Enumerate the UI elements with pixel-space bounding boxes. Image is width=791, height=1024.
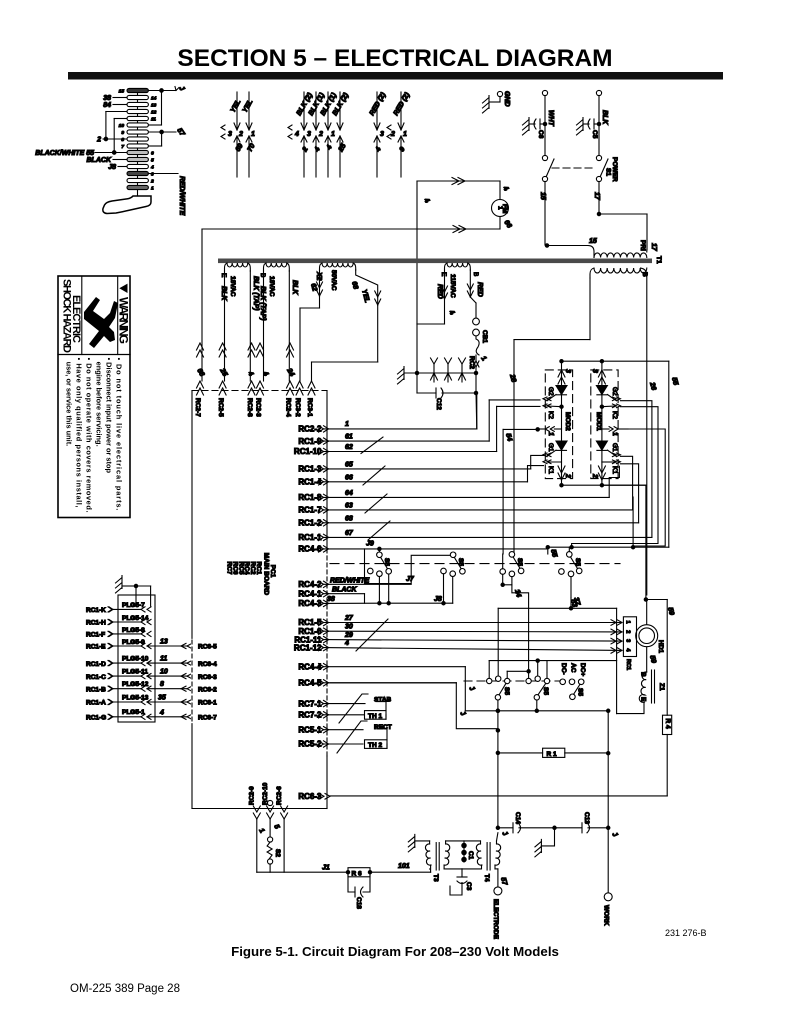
svg-text:RC4-5: RC4-5 [298, 679, 322, 688]
transformer T1 primary winding PRI [545, 238, 662, 264]
svg-text:RC1-2: RC1-2 [298, 519, 322, 528]
svg-text:RC7-1: RC7-1 [298, 699, 322, 708]
transformer T1 18VAC winding 2 [259, 263, 298, 381]
switch S5 contact 1a [368, 547, 392, 605]
PC1 MAIN BOARD label [226, 553, 277, 596]
row RC1-8 wire 64 [298, 466, 619, 502]
svg-text:WORK: WORK [603, 905, 610, 926]
svg-text:29: 29 [344, 632, 353, 639]
svg-text:2: 2 [150, 178, 154, 184]
bottom connector pins RC2-9 RC2-10 RC2-6 [249, 782, 288, 819]
svg-text:T4: T4 [483, 874, 490, 882]
RC6 pins right of PLG5 [181, 643, 217, 721]
svg-text:RC5-2: RC5-2 [298, 740, 322, 749]
svg-text:R 6: R 6 [352, 870, 363, 877]
svg-text:RC1-E: RC1-E [86, 644, 106, 651]
svg-text:1: 1 [251, 131, 255, 138]
wire pin9 to node 57 [148, 130, 176, 146]
svg-text:DC-: DC- [560, 663, 567, 675]
svg-text:1: 1 [547, 432, 554, 436]
svg-text:WARNING: WARNING [117, 297, 131, 344]
switch J9 wiring [365, 541, 454, 584]
connector pin numbers [119, 88, 157, 191]
thermostat TH2 [337, 721, 392, 753]
svg-text:RC4-4: RC4-4 [298, 662, 322, 671]
svg-text:E: E [640, 697, 647, 702]
svg-text:J1: J1 [322, 865, 330, 872]
current sensor HD1 [636, 600, 675, 673]
row RC7-1 [298, 699, 365, 708]
switch S1 pole 2 POWER [552, 155, 647, 250]
svg-text:1: 1 [497, 206, 504, 210]
svg-text:4: 4 [159, 709, 164, 716]
transformer T1 core bar [218, 259, 652, 264]
svg-text:RC4-6: RC4-6 [298, 545, 322, 554]
PLG5 pin rows [113, 602, 187, 719]
row RC1-1 wire 67 [298, 401, 652, 542]
svg-text:RC1-B: RC1-B [86, 686, 106, 693]
svg-text:RC5-1: RC5-1 [298, 725, 322, 734]
svg-text:13: 13 [151, 102, 157, 108]
svg-text:1: 1 [151, 185, 154, 191]
svg-text:231 276-B: 231 276-B [665, 928, 707, 938]
row RC1-9 wire 61 [298, 400, 540, 446]
row RC1-7 wire 63 [298, 456, 632, 514]
work terminal [603, 828, 613, 926]
svg-text:S5: S5 [516, 558, 523, 566]
warning label warning triangle [119, 284, 127, 293]
connector RC1 board header [623, 617, 636, 670]
svg-text:B: B [472, 272, 479, 276]
PC1 board bottom edge [192, 808, 327, 810]
PC1 board dashed edge at rows [326, 391, 328, 549]
capacitor C13 [555, 812, 619, 839]
svg-text:S5: S5 [503, 687, 510, 695]
svg-text:R 4: R 4 [664, 719, 671, 730]
svg-text:12: 12 [151, 109, 157, 115]
svg-text:84: 84 [103, 102, 111, 109]
svg-text:S5: S5 [383, 558, 390, 566]
switch S5 contact 1d [559, 547, 582, 608]
svg-text:RC6-3: RC6-3 [298, 792, 322, 801]
svg-text:18VAC: 18VAC [268, 276, 275, 297]
wire pair group 3 (RED leads) [369, 91, 412, 177]
svg-text:R 1: R 1 [547, 751, 558, 758]
svg-text:MAIN BOARD: MAIN BOARD [263, 553, 270, 596]
svg-text:C13: C13 [583, 812, 590, 824]
wire pin3 RED/WHITE [148, 173, 178, 175]
warning label bullet text [65, 358, 124, 513]
wire 53 node [498, 599, 616, 714]
svg-text:J9: J9 [366, 541, 374, 548]
capacitor C1 [446, 841, 481, 862]
switch S2 on RC2-10 [267, 819, 281, 872]
wire MOD1 pin1 down [628, 429, 665, 549]
svg-text:RECT: RECT [374, 724, 392, 731]
svg-text:RC7-2: RC7-2 [298, 711, 322, 720]
svg-text:S5: S5 [574, 558, 581, 566]
capacitor C3 [444, 869, 480, 895]
svg-text:PLG5-12: PLG5-12 [122, 681, 149, 688]
row RC1-11 wire 29 [294, 632, 622, 644]
switch S5 contact 1c [500, 552, 529, 672]
capacitor C12 [417, 373, 477, 429]
svg-text:PLG5-10: PLG5-10 [122, 656, 149, 663]
SCR module MOD1 internals [591, 361, 628, 485]
ground at C14/C13 [535, 828, 555, 857]
svg-text:RC1-8: RC1-8 [298, 493, 322, 502]
svg-text:▪ Do not operate with covers r: ▪ Do not operate with covers removed. [85, 358, 94, 513]
svg-text:RC1-3: RC1-3 [298, 465, 322, 474]
node BLACK/WHITE 55 wire [35, 119, 127, 158]
row RC4-4 [298, 662, 476, 710]
svg-text:38: 38 [103, 95, 111, 102]
MOD bottom bus [560, 484, 646, 487]
svg-text:2: 2 [96, 137, 101, 144]
svg-text:T3: T3 [432, 874, 439, 882]
node J8 wire [108, 164, 127, 171]
svg-text:RC6-7: RC6-7 [198, 715, 217, 722]
svg-text:K2: K2 [611, 411, 618, 419]
svg-text:RC1-5: RC1-5 [298, 618, 322, 627]
svg-text:10: 10 [119, 123, 125, 129]
transformer T1 secondary winding B [508, 268, 657, 595]
svg-text:3: 3 [307, 131, 311, 138]
svg-text:27: 27 [344, 615, 354, 622]
svg-text:RED/WHITE: RED/WHITE [330, 577, 370, 584]
svg-text:11: 11 [160, 656, 167, 663]
svg-text:K2: K2 [547, 411, 554, 419]
svg-text:15: 15 [119, 88, 125, 94]
svg-text:RC1-H: RC1-H [86, 620, 106, 627]
row RC5-2 [298, 740, 363, 749]
node 84 wire [103, 102, 127, 109]
SCR D3 top (anode up) [556, 386, 567, 395]
wire 54 MOD2 pin1 to S5 [503, 429, 538, 554]
node 55 junction [546, 546, 558, 559]
svg-text:C18: C18 [355, 897, 362, 909]
svg-text:2: 2 [591, 473, 598, 478]
svg-text:1: 1 [345, 421, 349, 428]
svg-text:RC1: RC1 [625, 659, 631, 670]
bottom rail to R6 [257, 865, 350, 874]
svg-text:17: 17 [650, 243, 657, 252]
svg-text:S5: S5 [542, 687, 549, 695]
svg-text:B: B [640, 672, 647, 677]
circuit breaker CB1 [468, 318, 488, 395]
svg-text:RC1-K: RC1-K [86, 607, 106, 614]
svg-text:38: 38 [327, 596, 335, 603]
svg-text:RC3-1: RC3-1 [306, 398, 313, 417]
svg-text:engine before servicing.: engine before servicing. [95, 358, 104, 447]
RC1 letter pins left [86, 607, 113, 722]
svg-text:BLACK: BLACK [87, 157, 112, 164]
svg-text:1: 1 [331, 131, 335, 138]
svg-text:B: B [259, 273, 266, 277]
svg-text:4: 4 [344, 640, 349, 647]
svg-text:50VAC: 50VAC [330, 270, 337, 291]
svg-text:TH 1: TH 1 [368, 713, 382, 720]
row RC4-2 RED/WHITE [298, 577, 411, 589]
svg-text:RC2-5: RC2-5 [217, 398, 224, 417]
ground GND chassis [483, 91, 511, 113]
cable slash RC1-5..12 [356, 619, 388, 651]
svg-text:3: 3 [151, 171, 154, 177]
svg-text:K1: K1 [547, 466, 554, 474]
svg-text:RC4-1: RC4-1 [298, 589, 322, 598]
svg-text:STAB: STAB [374, 697, 392, 704]
ground and surge arresters row [398, 358, 477, 384]
svg-text:RED/WHITE: RED/WHITE [178, 176, 185, 216]
svg-text:SECTION 5 – ELECTRICAL DIAGRAM: SECTION 5 – ELECTRICAL DIAGRAM [177, 45, 612, 72]
svg-text:BLK (TAP): BLK (TAP) [252, 276, 259, 311]
SCR module MOD2 internals [536, 361, 571, 485]
svg-text:13: 13 [160, 639, 168, 646]
PC1 board left edge [191, 391, 193, 809]
svg-text:X2: X2 [315, 271, 322, 281]
svg-text:BLACK: BLACK [332, 587, 357, 594]
svg-text:4: 4 [150, 164, 154, 170]
inductor Z1 [617, 670, 665, 714]
svg-text:TH 2: TH 2 [368, 742, 382, 749]
svg-text:RC6-3: RC6-3 [198, 674, 217, 681]
svg-text:17: 17 [593, 192, 600, 201]
transformer T1 115VAC winding [417, 263, 483, 373]
svg-text:C5: C5 [591, 130, 598, 139]
svg-text:RC6-2: RC6-2 [198, 686, 217, 693]
capacitor C6 with ground [523, 90, 555, 155]
MOD1 pin 1 [609, 427, 618, 432]
svg-text:GND: GND [503, 91, 510, 107]
capacitor C5 with ground [577, 90, 609, 155]
SCR module MOD1 dashed outline [591, 370, 618, 479]
row RC1-5 wire 27 [298, 615, 622, 627]
svg-text:RC1-D: RC1-D [86, 661, 106, 668]
warning label shock person pictograph [84, 297, 118, 348]
row RC5-1 [298, 725, 363, 734]
svg-text:ELECTRODE: ELECTRODE [492, 899, 499, 940]
SCR D1 top [596, 386, 607, 395]
svg-text:C6: C6 [537, 130, 544, 139]
row RC1-3 wire 65 [298, 455, 543, 473]
svg-text:CB1: CB1 [481, 330, 488, 343]
svg-text:RC1-1: RC1-1 [298, 533, 322, 542]
svg-text:66: 66 [345, 474, 353, 481]
svg-text:62: 62 [345, 444, 353, 451]
selector switch S5 dashed gang line row 1 [330, 563, 620, 565]
cable slash RC1-9/RC1-10 [361, 437, 383, 454]
node wire to R1 [465, 709, 610, 828]
svg-text:J7: J7 [406, 576, 415, 583]
svg-text:3: 3 [625, 639, 631, 642]
svg-text:3: 3 [380, 131, 384, 138]
svg-text:Z1: Z1 [658, 683, 665, 691]
row RC1-4 wire 66 [298, 466, 543, 487]
svg-text:15: 15 [589, 238, 597, 245]
svg-text:RC2: RC2 [468, 356, 475, 369]
svg-text:PRI: PRI [639, 240, 646, 251]
hf transformer T3 [408, 834, 449, 882]
svg-text:8: 8 [121, 137, 124, 143]
svg-text:C12: C12 [435, 398, 442, 410]
transformer T1 18VAC winding 1 [220, 263, 259, 381]
svg-text:G1: G1 [547, 443, 554, 452]
svg-text:RC2-3: RC2-3 [255, 398, 262, 417]
svg-text:RC6-1: RC6-1 [198, 700, 217, 707]
svg-text:5: 5 [151, 157, 154, 163]
svg-text:RC6-5: RC6-5 [198, 644, 217, 651]
row RC4-6 [298, 545, 547, 554]
row RC1-2 wire 68 [298, 464, 638, 528]
row RC2-2 wire 1 [298, 393, 476, 434]
svg-text:S5: S5 [457, 558, 464, 566]
svg-text:RC1-7: RC1-7 [298, 506, 322, 515]
svg-text:RED: RED [476, 282, 483, 297]
svg-text:PLG5-13: PLG5-13 [122, 695, 149, 702]
svg-text:3: 3 [591, 369, 598, 373]
node 38 wire [103, 95, 127, 102]
svg-text:S2: S2 [274, 849, 281, 857]
SCR module MOD2 dashed outline [545, 370, 572, 479]
svg-text:35: 35 [158, 695, 166, 702]
svg-text:AC: AC [570, 663, 577, 673]
svg-text:3: 3 [564, 369, 571, 373]
svg-text:RC3-2: RC3-2 [294, 398, 301, 417]
connector PLG5 block [116, 576, 156, 723]
row RC1-12 wire 4 [294, 640, 622, 653]
svg-text:68: 68 [345, 515, 353, 522]
svg-text:J8: J8 [434, 596, 442, 603]
svg-text:G2: G2 [611, 387, 618, 396]
switch S5 contact 1b [441, 552, 466, 605]
resistor R6 [348, 863, 431, 877]
svg-text:PLG5-1: PLG5-1 [122, 709, 145, 716]
svg-text:RC1-10: RC1-10 [294, 447, 322, 456]
capacitor C18 [348, 872, 370, 909]
svg-text:OM-225 389 Page 28: OM-225 389 Page 28 [70, 983, 180, 995]
svg-text:use, or service this unit.: use, or service this unit. [65, 358, 74, 447]
svg-text:30: 30 [345, 624, 353, 631]
svg-text:WHT: WHT [547, 110, 554, 127]
svg-text:RC1-9: RC1-9 [298, 437, 322, 446]
cable slash RC1-3/RC1-4 [363, 466, 385, 485]
svg-text:E: E [220, 273, 227, 278]
svg-text:1: 1 [625, 621, 631, 624]
row RC1-10 wire 62 [294, 406, 540, 456]
resistor R1 [498, 748, 608, 758]
svg-text:C3: C3 [465, 882, 472, 891]
svg-text:J8: J8 [108, 164, 116, 171]
svg-text:RC4-2: RC4-2 [298, 580, 322, 589]
cable slash RC1-2/RC1-1 [368, 521, 390, 540]
cable slash RC1-8/RC1-7 [365, 494, 387, 513]
svg-text:MOD2: MOD2 [564, 412, 571, 431]
svg-text:BLACK/WHITE 55: BLACK/WHITE 55 [35, 150, 94, 157]
svg-text:2: 2 [564, 473, 571, 478]
svg-text:S1: S1 [605, 168, 612, 176]
row RC4-5 [298, 679, 498, 729]
svg-text:6: 6 [151, 150, 154, 156]
thermostat TH1 [339, 694, 392, 723]
row RC4-1 BLACK [298, 587, 364, 604]
svg-text:G1: G1 [611, 443, 618, 452]
svg-text:3: 3 [228, 131, 232, 138]
svg-text:RC2-4: RC2-4 [285, 398, 292, 417]
svg-text:4: 4 [294, 131, 299, 138]
svg-text:2: 2 [318, 131, 323, 138]
svg-text:Figure 5-1. Circuit Diagram Fo: Figure 5-1. Circuit Diagram For 208–230 … [231, 944, 559, 959]
wire MOD1 K2 to S5 area [570, 407, 658, 549]
hf transformer T4 [476, 830, 509, 887]
svg-text:RC7: RC7 [226, 562, 233, 575]
svg-text:RC1-12: RC1-12 [294, 643, 322, 652]
transformer T1 50VAC winding [300, 263, 381, 381]
junction rail J8 [379, 596, 452, 603]
svg-text:K1: K1 [611, 466, 618, 474]
svg-text:C14: C14 [514, 812, 521, 824]
svg-text:RC2-6: RC2-6 [276, 786, 283, 805]
svg-text:HD1: HD1 [657, 640, 664, 653]
svg-text:63: 63 [345, 502, 353, 509]
wire MOD1 bottom bus to HD1 [602, 485, 648, 601]
svg-text:1: 1 [403, 131, 407, 138]
svg-text:PLG5-7: PLG5-7 [122, 602, 145, 609]
svg-text:1: 1 [611, 432, 618, 436]
wire pair group 2 (BLK leads) [288, 91, 351, 177]
PC1 board edge lower solid [326, 756, 328, 809]
svg-text:BLK (TAP): BLK (TAP) [259, 286, 266, 321]
svg-text:BLK: BLK [601, 110, 608, 125]
svg-text:8: 8 [160, 681, 164, 688]
svg-text:RC2-9: RC2-9 [249, 786, 256, 805]
connector PLG (gun trigger plug) pin bars [127, 88, 148, 196]
svg-text:ELECTRIC: ELECTRIC [70, 295, 82, 343]
MOD2 pin 1 [545, 427, 554, 432]
resistor R4 [647, 600, 672, 796]
svg-text:RC1-A: RC1-A [86, 700, 106, 707]
capacitor C14 [496, 812, 556, 833]
SCR D4 bottom [556, 441, 567, 450]
connector pins row RC2-7 RC2-5 RC2-8 RC2-3 RC2-4 RC3-2 RC3-1 [192, 343, 327, 417]
svg-text:11: 11 [151, 116, 156, 122]
svg-text:RC1-4: RC1-4 [298, 478, 322, 487]
PC1 board dashed edge at RC6 pins [191, 640, 193, 722]
electrode terminal [492, 887, 502, 940]
node BLACK wire [87, 157, 128, 164]
svg-text:67: 67 [345, 530, 354, 537]
selector switch S5 row 2 contact a [330, 608, 617, 712]
svg-text:G2: G2 [547, 387, 554, 396]
svg-text:▪ Do not touch live electrical: ▪ Do not touch live electrical parts. [115, 358, 124, 511]
svg-text:10: 10 [160, 669, 168, 676]
svg-text:61: 61 [345, 434, 353, 441]
svg-text:7: 7 [121, 144, 124, 150]
svg-text:RC2-7: RC2-7 [194, 398, 201, 417]
row RC1-6 wire 30 [298, 624, 622, 636]
svg-text:RC2-8: RC2-8 [246, 398, 253, 417]
switch S1 pole 1 [539, 155, 554, 245]
svg-text:65: 65 [345, 461, 353, 468]
wire pin15 to node J [148, 87, 179, 126]
svg-text:RC1-G: RC1-G [86, 715, 106, 722]
row RC7-2 [298, 711, 364, 720]
svg-text:B: B [641, 272, 648, 277]
gun trigger hook shape [103, 196, 151, 214]
svg-text:RC1-F: RC1-F [86, 632, 105, 639]
wire 1 from RC2-9 [257, 819, 266, 872]
svg-text:PLG5-14: PLG5-14 [122, 615, 149, 622]
svg-text:MOD1: MOD1 [595, 412, 602, 431]
